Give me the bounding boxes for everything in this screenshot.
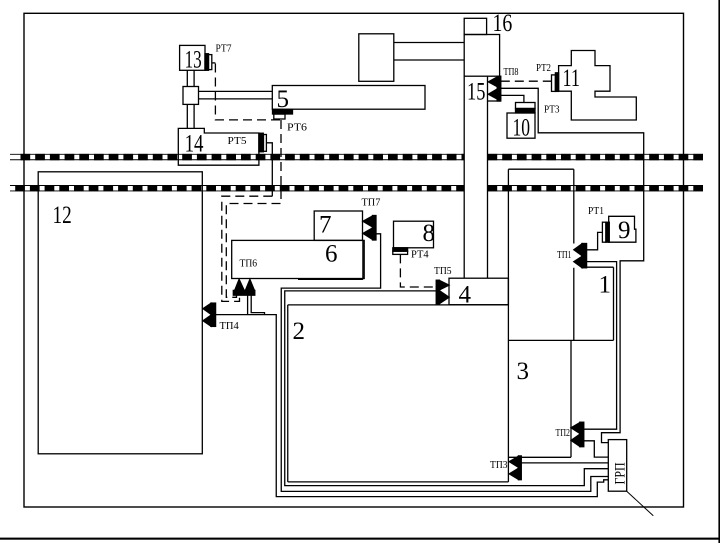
wire TP8 to GRP via right side <box>501 88 644 442</box>
block 16 <box>464 18 486 34</box>
wire RT5 solid drop <box>266 143 272 196</box>
regulator RT5 box <box>264 135 267 152</box>
wire TP6 drops to TP4 line <box>248 295 265 314</box>
svg-text:5: 5 <box>277 86 290 113</box>
regulator RT2 bar <box>555 73 558 92</box>
thermocouple TP1 bar <box>582 244 587 268</box>
svg-text:ТП3: ТП3 <box>490 460 508 471</box>
thermocouple TP4 triangle 1 <box>203 303 211 314</box>
svg-text:ТП6: ТП6 <box>240 259 258 270</box>
wire TP1 down to TP2 <box>584 262 617 430</box>
thermocouple TP8 triangle 2 <box>488 89 497 99</box>
regulator RT4 bar <box>393 248 408 251</box>
wire RT7 dashed to RT6 line <box>215 64 281 120</box>
block 5 <box>272 86 425 110</box>
thermocouple TP4 triangle 2 <box>203 315 211 326</box>
wire TP4 to GRP bus line <box>216 315 609 497</box>
regulator RT3 box <box>516 103 536 109</box>
svg-text:РТ1: РТ1 <box>588 206 604 217</box>
wire TP7 to GRP bus line <box>281 234 608 492</box>
thermocouple TP5 triangle 1 <box>439 280 449 290</box>
wire RT7 stub <box>212 62 216 64</box>
svg-text:РТ4: РТ4 <box>411 250 429 261</box>
wire pair junction to 14 <box>187 104 194 128</box>
svg-text:РТ6: РТ6 <box>287 123 307 134</box>
block 6 inner double lines <box>298 240 363 279</box>
block 10 <box>507 113 535 138</box>
regulator RT5 bar <box>259 133 263 152</box>
thermocouple TP2 triangle 1 <box>571 423 580 434</box>
block 4 <box>449 278 508 305</box>
thermocouple TP2 triangle 2 <box>571 434 580 446</box>
wire railway track 2 rails <box>10 186 703 191</box>
svg-text:ТП1: ТП1 <box>557 250 572 261</box>
block GRP <box>608 440 626 492</box>
block 14 <box>178 128 259 165</box>
svg-text:10: 10 <box>513 115 531 142</box>
block top feeder rectangle <box>359 34 394 82</box>
wire pair 13 to junction <box>187 70 194 86</box>
svg-text:РТ3: РТ3 <box>544 105 560 116</box>
wire railway track 2 dashes <box>15 185 703 191</box>
wire railway track 1 dashes <box>21 154 704 160</box>
svg-text:ТП2: ТП2 <box>556 428 571 439</box>
svg-text:16: 16 <box>493 10 513 37</box>
svg-text:7: 7 <box>319 212 332 239</box>
svg-text:14: 14 <box>185 131 204 158</box>
regulator RT6 box <box>274 114 285 119</box>
wire pair junction to block 5 <box>199 91 273 99</box>
thermocouple TP7 bar <box>373 216 377 241</box>
svg-text:2: 2 <box>293 318 306 345</box>
block 3 outline <box>508 340 571 457</box>
wire common left wall of blocks 1,4,3,2 <box>507 169 509 482</box>
svg-text:ТП7: ТП7 <box>362 198 381 209</box>
thermocouple TP5 triangle 2 <box>439 291 449 304</box>
block 1 outline <box>508 169 613 340</box>
thermocouple TP6 triangle 2 <box>245 279 254 290</box>
wire TP8 base line <box>488 100 501 102</box>
block 13 <box>180 45 205 70</box>
block 15 chimney head <box>464 35 499 77</box>
block 7 <box>314 211 362 240</box>
thermocouple TP6 bar <box>233 290 255 295</box>
block 11 <box>559 51 637 121</box>
thermocouple TP8 triangle 1 <box>488 77 497 87</box>
svg-text:4: 4 <box>459 282 472 309</box>
wire RT6 dashed to TP6 <box>226 120 281 297</box>
svg-text:3: 3 <box>517 358 530 385</box>
thermocouple TP3 triangle 1 <box>509 456 518 467</box>
regulator RT7 bar <box>205 54 209 71</box>
svg-text:ТП4: ТП4 <box>220 321 240 332</box>
svg-text:РТ5: РТ5 <box>228 136 247 147</box>
thermocouple TP3 triangle 2 <box>509 468 518 479</box>
svg-text:9: 9 <box>618 217 631 244</box>
wire TP3 to GRP <box>521 462 608 464</box>
thermocouple TP4 bar <box>211 303 216 326</box>
thermocouple TP2 bar <box>580 422 584 447</box>
thermocouple TP7 triangle 2 <box>363 228 373 240</box>
wire railway track 1 rails <box>10 154 703 159</box>
node junction square between 13 and 14 <box>183 87 199 105</box>
regulator RT2 box <box>552 75 556 92</box>
regulator RT4 box <box>393 251 408 254</box>
regulator RT3 bar <box>516 109 536 113</box>
block 15 column <box>464 76 487 278</box>
wire TP8 dashed to RT2 <box>501 80 552 82</box>
page right border line <box>718 0 720 543</box>
svg-text:6: 6 <box>325 241 338 268</box>
svg-text:1: 1 <box>599 272 612 299</box>
page bottom border line <box>0 538 720 540</box>
regulator RT1 box <box>602 222 606 242</box>
regulator RT7 box <box>209 55 212 70</box>
thermocouple TP3 bar <box>518 456 521 480</box>
svg-text:ТП8: ТП8 <box>504 67 519 78</box>
wire TP8 to RT3 <box>501 95 524 102</box>
svg-text:15: 15 <box>467 79 485 106</box>
wire GRP service diagonal <box>627 491 654 516</box>
thermocouple TP1 triangle 1 <box>574 244 582 256</box>
wire duct to chimney <box>394 43 464 61</box>
svg-text:ГРП: ГРП <box>613 462 629 484</box>
thermocouple TP7 triangle 1 <box>363 216 373 227</box>
thermocouple TP8 bar <box>497 76 501 101</box>
wire TP5 to GRP bus line <box>285 291 609 486</box>
svg-text:8: 8 <box>423 220 436 247</box>
regulator RT1 bar <box>606 222 609 242</box>
svg-text:13: 13 <box>185 46 202 73</box>
block 2 outline <box>288 305 509 482</box>
block 8 <box>394 221 434 248</box>
block 12 <box>38 172 202 454</box>
thermocouple TP1 triangle 2 <box>574 256 582 267</box>
regulator RT6 bar <box>273 110 293 114</box>
block 9 <box>609 216 636 242</box>
svg-text:РТ2: РТ2 <box>536 63 551 74</box>
svg-text:11: 11 <box>563 65 581 92</box>
wire RT5 dashed to TP6 <box>222 196 272 301</box>
svg-text:ТП5: ТП5 <box>434 266 452 277</box>
wire TP1 to RT1 <box>587 232 603 249</box>
wire TP2 to GRP <box>584 441 609 457</box>
block 6 <box>232 240 365 278</box>
thermocouple TP6 triangle 1 <box>235 279 245 290</box>
wire RT4 dashed to TP5 <box>400 254 436 287</box>
thermocouple TP5 bar <box>436 280 439 304</box>
svg-text:РТ7: РТ7 <box>216 44 232 55</box>
svg-text:12: 12 <box>53 202 72 229</box>
